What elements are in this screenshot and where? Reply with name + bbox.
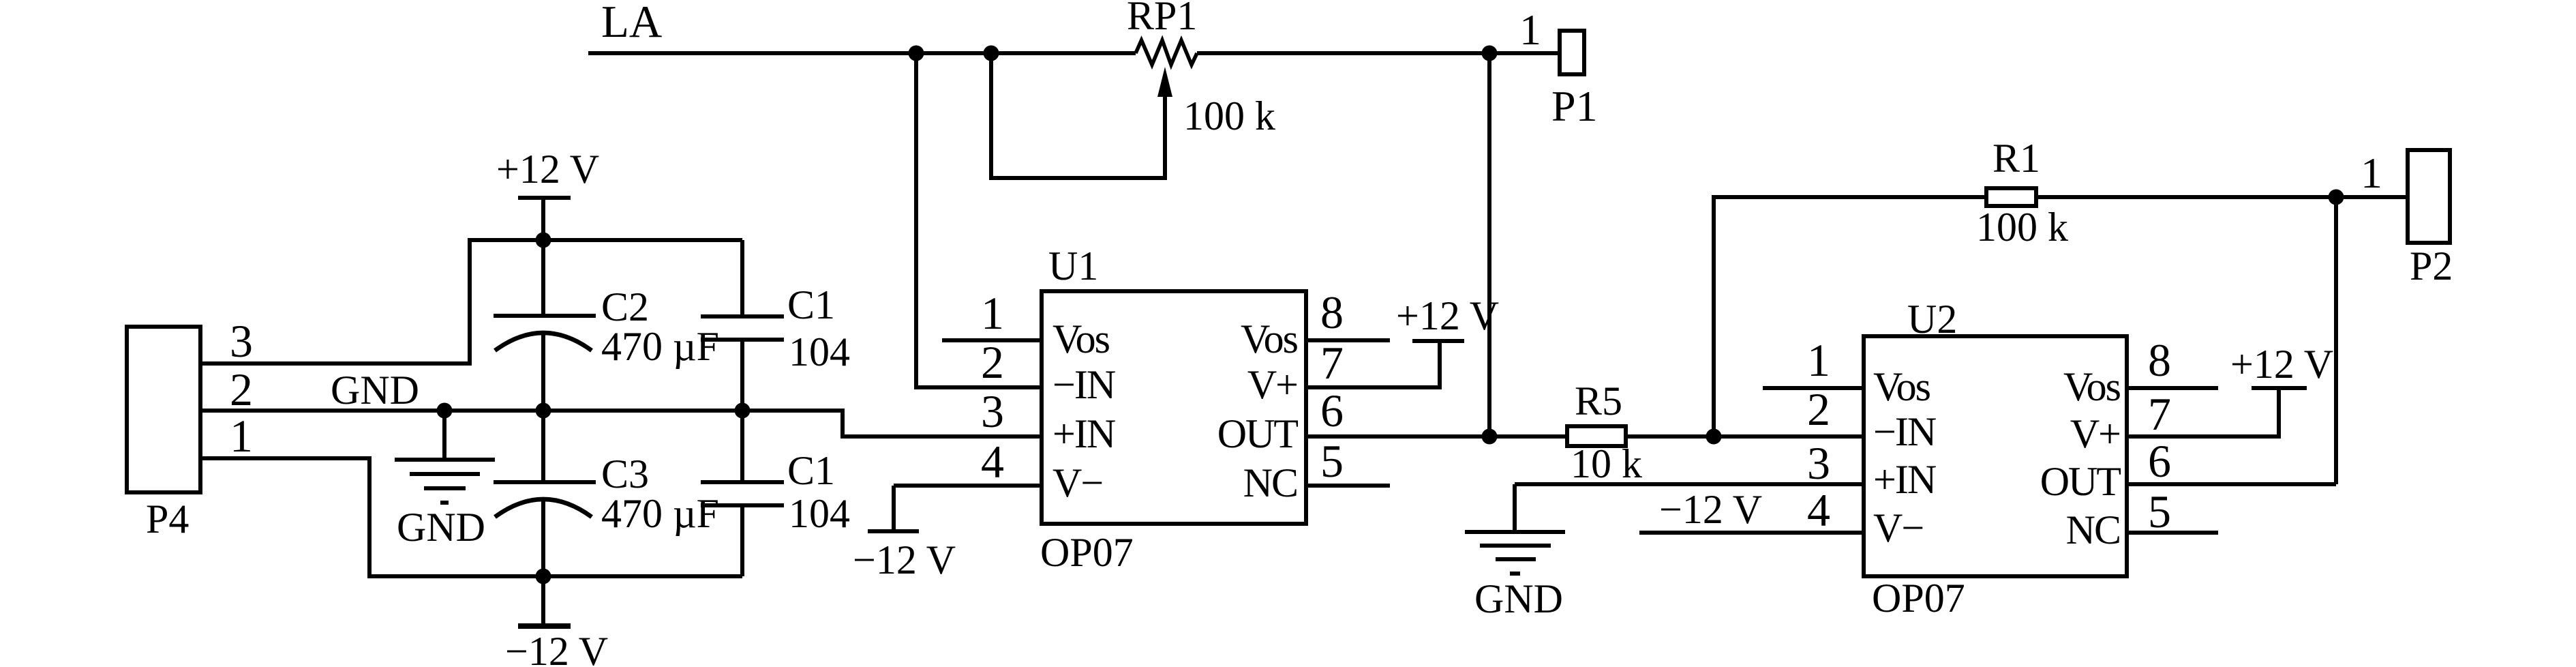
svg-text:Vos: Vos	[2063, 364, 2121, 409]
svg-text:P2: P2	[2410, 243, 2453, 288]
svg-text:U2: U2	[1907, 297, 1957, 342]
svg-text:5: 5	[2148, 486, 2171, 537]
svg-text:+12 V: +12 V	[1396, 293, 1499, 338]
svg-text:NC: NC	[1243, 460, 1297, 505]
svg-text:V−: V−	[1873, 505, 1923, 550]
svg-text:10 k: 10 k	[1571, 441, 1642, 486]
svg-text:1: 1	[981, 287, 1004, 339]
svg-text:6: 6	[2148, 435, 2171, 487]
svg-text:OUT: OUT	[2040, 459, 2121, 504]
svg-text:100 k: 100 k	[1183, 93, 1275, 138]
svg-text:104: 104	[789, 491, 850, 536]
svg-text:C3: C3	[601, 451, 649, 496]
svg-text:3: 3	[230, 315, 253, 367]
svg-text:4: 4	[1807, 484, 1830, 536]
svg-text:−12 V: −12 V	[505, 629, 608, 667]
svg-text:Vos: Vos	[1241, 316, 1298, 361]
svg-text:6: 6	[1320, 385, 1344, 436]
svg-text:−12 V: −12 V	[853, 537, 956, 582]
svg-text:V+: V+	[1247, 362, 1297, 407]
svg-text:5: 5	[1320, 435, 1344, 487]
svg-text:OP07: OP07	[1872, 576, 1965, 621]
svg-text:OP07: OP07	[1040, 530, 1134, 575]
svg-text:2: 2	[230, 364, 253, 415]
svg-text:1: 1	[1519, 5, 1541, 54]
svg-text:1: 1	[2361, 149, 2382, 197]
svg-text:−12 V: −12 V	[1659, 487, 1762, 532]
svg-text:104: 104	[789, 329, 850, 374]
svg-text:NC: NC	[2066, 507, 2120, 552]
svg-text:GND: GND	[397, 505, 485, 550]
svg-text:1: 1	[230, 410, 253, 462]
svg-text:−IN: −IN	[1873, 409, 1936, 454]
svg-text:2: 2	[1807, 383, 1830, 435]
svg-text:470 µF: 470 µF	[601, 324, 719, 369]
svg-text:P4: P4	[146, 496, 189, 542]
svg-text:OUT: OUT	[1217, 411, 1299, 456]
svg-text:+12 V: +12 V	[2230, 342, 2333, 387]
svg-text:LA: LA	[601, 0, 662, 47]
svg-text:GND: GND	[331, 368, 419, 413]
svg-text:Vos: Vos	[1873, 364, 1930, 409]
svg-text:V+: V+	[2070, 411, 2120, 456]
svg-text:P1: P1	[1551, 82, 1598, 130]
svg-text:7: 7	[2148, 388, 2171, 440]
svg-text:2: 2	[981, 336, 1004, 388]
svg-text:R5: R5	[1575, 379, 1622, 424]
svg-text:V−: V−	[1052, 460, 1102, 505]
svg-text:C1: C1	[787, 448, 835, 493]
svg-text:+IN: +IN	[1873, 457, 1936, 502]
svg-text:4: 4	[981, 436, 1004, 488]
svg-text:470 µF: 470 µF	[601, 491, 719, 536]
svg-text:3: 3	[981, 385, 1004, 437]
svg-text:100 k: 100 k	[1976, 205, 2068, 250]
svg-text:7: 7	[1320, 337, 1344, 389]
svg-text:+IN: +IN	[1052, 411, 1115, 456]
svg-text:RP1: RP1	[1127, 0, 1197, 38]
svg-text:−IN: −IN	[1052, 362, 1115, 407]
svg-text:Vos: Vos	[1052, 316, 1110, 361]
svg-text:1: 1	[1807, 334, 1830, 386]
svg-text:3: 3	[1807, 437, 1830, 489]
svg-text:8: 8	[1320, 286, 1344, 338]
svg-text:U1: U1	[1048, 243, 1098, 288]
svg-text:+12 V: +12 V	[496, 147, 599, 192]
svg-text:C2: C2	[601, 284, 649, 329]
svg-text:C1: C1	[787, 282, 835, 327]
svg-text:R1: R1	[1992, 136, 2040, 181]
svg-text:GND: GND	[1474, 576, 1563, 621]
svg-text:8: 8	[2148, 334, 2171, 386]
